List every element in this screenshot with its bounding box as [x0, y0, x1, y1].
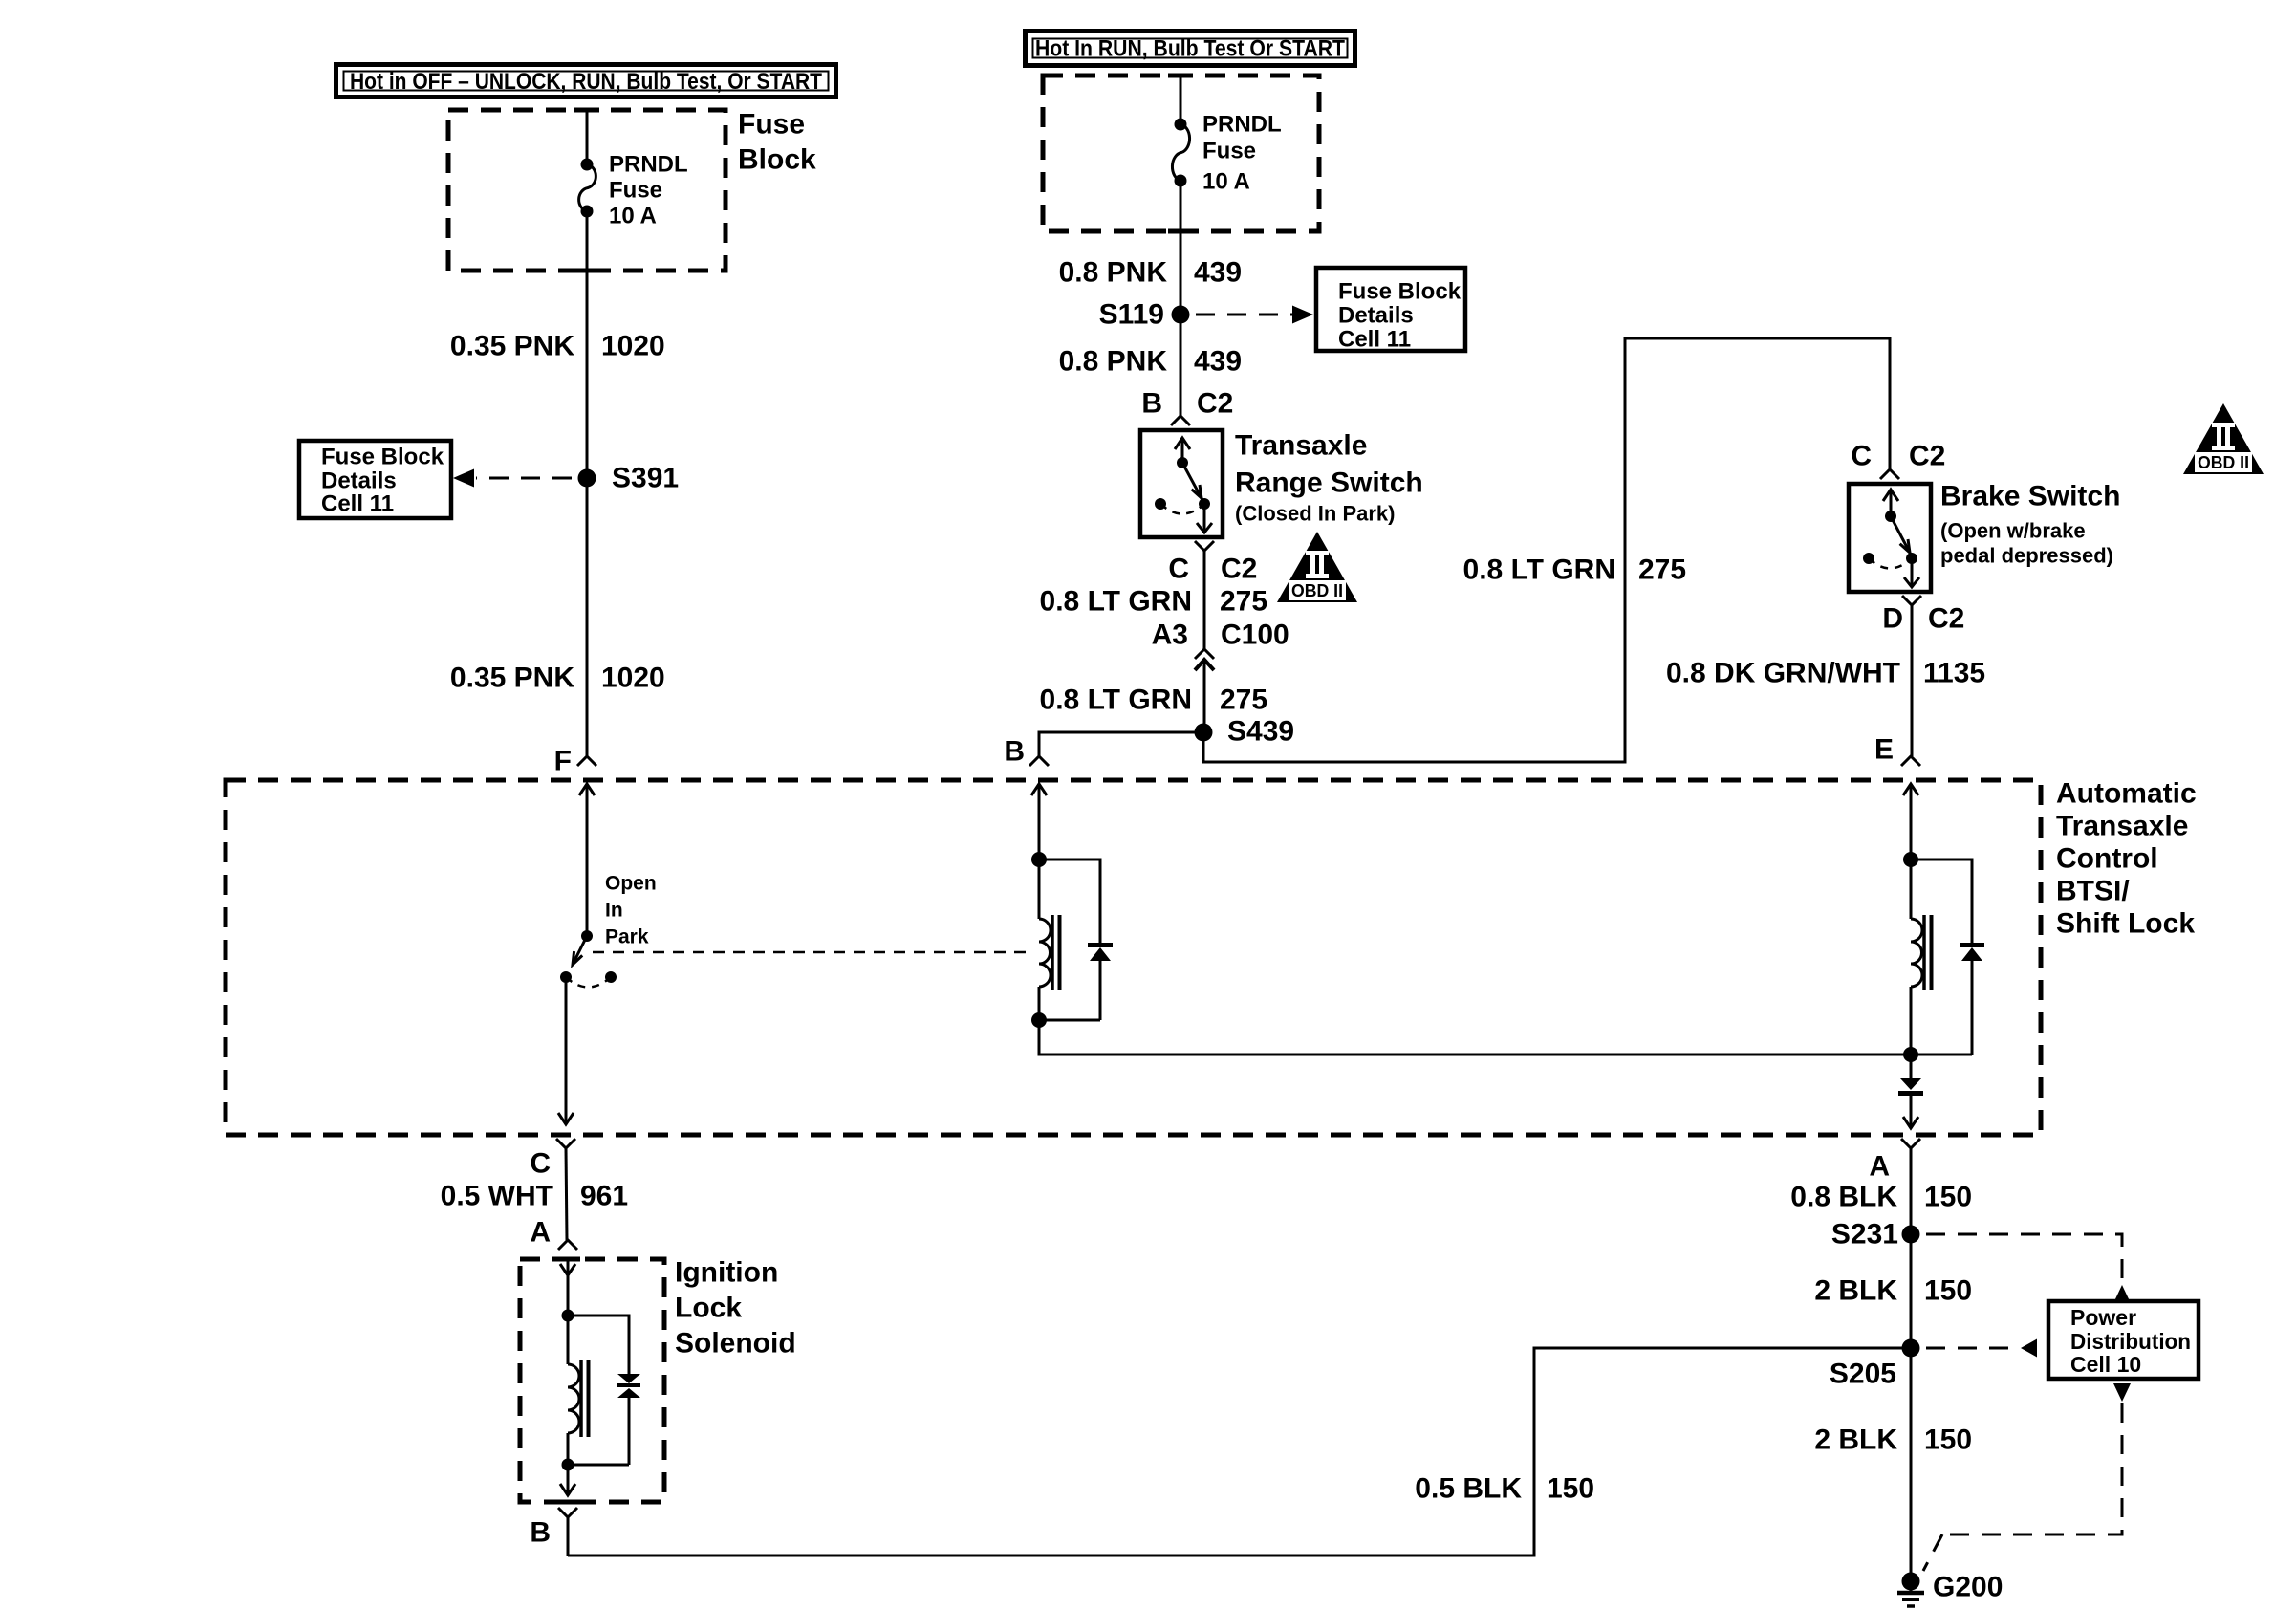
svg-text:pedal depressed): pedal depressed): [1940, 544, 2113, 568]
svg-text:(Closed In Park): (Closed In Park): [1235, 502, 1395, 526]
svg-text:0.8 PNK: 0.8 PNK: [1059, 257, 1168, 289]
svg-text:BTSI/: BTSI/: [2056, 876, 2130, 907]
svg-text:0.5 BLK: 0.5 BLK: [1415, 1473, 1522, 1505]
svg-text:PRNDL: PRNDL: [1202, 112, 1282, 138]
svg-text:150: 150: [1924, 1182, 1972, 1213]
svg-text:439: 439: [1194, 257, 1242, 289]
svg-text:Shift Lock: Shift Lock: [2056, 908, 2195, 940]
svg-text:Cell 11: Cell 11: [1338, 327, 1411, 353]
svg-text:2 BLK: 2 BLK: [1814, 1425, 1897, 1456]
svg-text:S205: S205: [1830, 1359, 1896, 1390]
svg-text:275: 275: [1638, 555, 1686, 586]
svg-text:C: C: [530, 1148, 551, 1180]
svg-text:A: A: [1869, 1151, 1890, 1183]
svg-text:0.8 LT GRN: 0.8 LT GRN: [1040, 586, 1192, 618]
svg-text:OBD II: OBD II: [2198, 453, 2249, 472]
svg-text:S231: S231: [1831, 1219, 1898, 1251]
svg-text:Fuse Block: Fuse Block: [1338, 279, 1462, 305]
svg-text:Hot In RUN, Bulb Test Or START: Hot In RUN, Bulb Test Or START: [1035, 36, 1345, 62]
svg-text:C2: C2: [1197, 388, 1233, 420]
svg-text:C2: C2: [1909, 441, 1945, 472]
svg-text:C: C: [1168, 554, 1189, 585]
svg-text:Fuse: Fuse: [609, 178, 662, 204]
svg-text:10 A: 10 A: [609, 204, 657, 229]
svg-text:S119: S119: [1099, 299, 1164, 331]
svg-text:C100: C100: [1221, 620, 1289, 651]
svg-text:Control: Control: [2056, 843, 2158, 875]
svg-text:439: 439: [1194, 346, 1242, 378]
svg-text:C: C: [1851, 441, 1872, 472]
svg-text:C2: C2: [1221, 554, 1257, 585]
svg-text:OBD II: OBD II: [1291, 581, 1343, 600]
svg-text:0.8 LT GRN: 0.8 LT GRN: [1463, 555, 1615, 586]
svg-text:A3: A3: [1152, 620, 1188, 651]
svg-text:0.35 PNK: 0.35 PNK: [450, 663, 574, 694]
svg-text:Cell 11: Cell 11: [321, 491, 394, 517]
svg-text:E: E: [1874, 734, 1894, 766]
svg-text:In: In: [605, 900, 623, 922]
svg-text:Solenoid: Solenoid: [675, 1328, 796, 1360]
svg-text:Automatic: Automatic: [2056, 778, 2197, 810]
svg-text:Distribution: Distribution: [2070, 1329, 2191, 1354]
svg-text:PRNDL: PRNDL: [609, 152, 688, 178]
svg-text:1135: 1135: [1923, 658, 1985, 689]
svg-text:Transaxle: Transaxle: [1235, 430, 1367, 462]
svg-text:0.5 WHT: 0.5 WHT: [441, 1181, 553, 1212]
svg-text:961: 961: [580, 1181, 628, 1212]
svg-text:F: F: [554, 746, 572, 777]
svg-text:Lock: Lock: [675, 1293, 742, 1324]
svg-text:Park: Park: [605, 926, 649, 948]
svg-text:Fuse Block: Fuse Block: [321, 445, 444, 470]
svg-text:D: D: [1882, 603, 1903, 635]
svg-text:Fuse: Fuse: [1202, 139, 1256, 164]
svg-text:Range Switch: Range Switch: [1235, 468, 1423, 499]
svg-text:B: B: [1141, 388, 1162, 420]
svg-text:Transaxle: Transaxle: [2056, 811, 2188, 842]
svg-text:275: 275: [1220, 586, 1267, 618]
svg-text:S391: S391: [612, 463, 679, 494]
svg-text:Open: Open: [605, 873, 657, 895]
svg-text:0.8 PNK: 0.8 PNK: [1059, 346, 1168, 378]
svg-text:10 A: 10 A: [1202, 169, 1250, 195]
svg-text:Hot in OFF – UNLOCK, RUN, Bulb: Hot in OFF – UNLOCK, RUN, Bulb Test, Or …: [350, 69, 822, 95]
svg-text:1020: 1020: [601, 331, 665, 362]
svg-text:Brake Switch: Brake Switch: [1940, 481, 2120, 512]
svg-text:Fuse: Fuse: [738, 109, 805, 141]
svg-text:Details: Details: [1338, 303, 1414, 329]
svg-text:0.8 LT GRN: 0.8 LT GRN: [1040, 685, 1192, 716]
svg-text:0.8 DK GRN/WHT: 0.8 DK GRN/WHT: [1666, 658, 1900, 689]
svg-text:150: 150: [1924, 1425, 1972, 1456]
svg-text:Block: Block: [738, 144, 816, 176]
svg-text:1020: 1020: [601, 663, 665, 694]
svg-text:S439: S439: [1227, 716, 1294, 748]
svg-text:C2: C2: [1928, 603, 1964, 635]
svg-text:(Open w/brake: (Open w/brake: [1940, 519, 2086, 543]
svg-text:Power: Power: [2070, 1305, 2136, 1330]
svg-text:0.35 PNK: 0.35 PNK: [450, 331, 574, 362]
svg-text:G200: G200: [1933, 1572, 2003, 1603]
svg-text:0.8 BLK: 0.8 BLK: [1790, 1182, 1897, 1213]
svg-text:B: B: [1004, 736, 1025, 768]
svg-text:150: 150: [1924, 1275, 1972, 1307]
svg-text:A: A: [530, 1217, 551, 1249]
svg-text:Cell 10: Cell 10: [2070, 1352, 2141, 1377]
svg-text:B: B: [530, 1517, 551, 1549]
svg-text:Details: Details: [321, 468, 397, 494]
svg-text:275: 275: [1220, 685, 1267, 716]
svg-text:150: 150: [1547, 1473, 1594, 1505]
svg-text:2 BLK: 2 BLK: [1814, 1275, 1897, 1307]
svg-text:Ignition: Ignition: [675, 1257, 778, 1289]
